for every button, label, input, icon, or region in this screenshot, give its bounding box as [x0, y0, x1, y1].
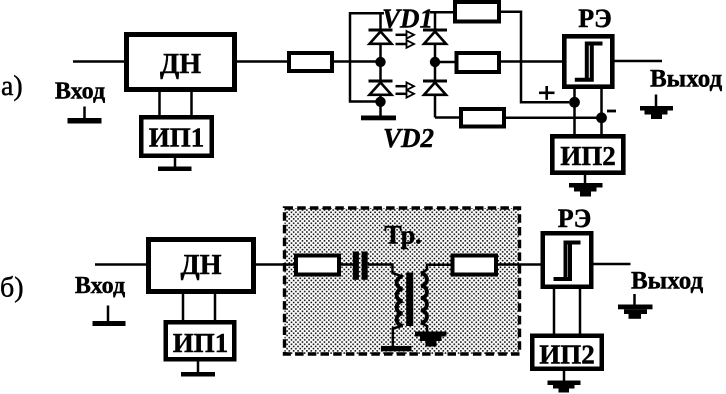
bottom resistor (a): [461, 109, 504, 127]
wire capacitor to transformer primary: [368, 265, 403, 277]
transformer primary winding: [397, 277, 403, 326]
optocoupler arrow 1: [396, 31, 415, 39]
ground under Vhod (b): [93, 306, 126, 327]
diode VD1 left: [369, 30, 393, 44]
dashed box: [285, 208, 520, 354]
wire right diode column: [434, 12, 437, 117]
diode right top: [423, 30, 447, 44]
wire DN to IP1 right (a): [190, 92, 193, 115]
svg-text:Выход: Выход: [631, 268, 704, 295]
ground under IP1 (a): [158, 158, 192, 171]
svg-text:ИП1: ИП1: [173, 328, 229, 358]
wire top resistor to plus node: [499, 12, 569, 103]
node dot left bottom: [375, 97, 385, 107]
block IP2 (a): [552, 136, 623, 172]
svg-text:ИП2: ИП2: [560, 141, 616, 171]
wire R1 to capacitor (b): [341, 263, 353, 266]
ground under Vhod (a): [68, 107, 102, 124]
wire DN to R1 (b): [256, 263, 296, 266]
wire right column to bottom resistor: [435, 116, 461, 119]
wire RE right pin to IP2 (b): [579, 289, 582, 336]
wire DN to IP1 left (b): [182, 294, 185, 322]
wire input (b): [95, 263, 148, 266]
transformer core: [406, 273, 413, 327]
wire primary to ground: [393, 326, 403, 347]
svg-text:ДН: ДН: [160, 49, 201, 80]
middle resistor (a): [457, 53, 500, 72]
earth of secondary winding: [415, 332, 447, 347]
wire top loop left segment: [350, 13, 384, 101]
optocoupler arrow 3: [396, 82, 415, 90]
svg-text:РЭ: РЭ: [558, 204, 592, 233]
wire secondary bottom to earth: [421, 323, 427, 332]
node dot minus (a): [596, 112, 607, 123]
wire bottom resistor to minus node: [506, 117, 602, 120]
svg-text:VD2: VD2: [383, 123, 434, 153]
ground under left diode column: [361, 116, 396, 121]
wire RE output (b): [594, 263, 631, 266]
ground under IP2 (a): [569, 175, 603, 197]
svg-text:а): а): [1, 71, 23, 102]
minus sign (a): [607, 110, 616, 113]
wire R1 to diode node (a): [334, 60, 381, 63]
wire RE left pin to IP2 (b): [553, 289, 556, 336]
block DN (b): [149, 240, 254, 292]
node dot plus (a): [569, 97, 580, 108]
wire R2 to RE (b): [498, 263, 542, 266]
svg-text:ИП2: ИП2: [539, 340, 595, 370]
ground under Vyhod (b): [618, 294, 653, 319]
plus sign (a): [539, 86, 555, 100]
wire middle resistor to RE: [501, 60, 564, 63]
wire node dot to middle resistor: [435, 61, 457, 64]
block DN (a): [127, 35, 235, 90]
transformer secondary winding: [421, 274, 427, 323]
ground under IP1 (b): [181, 362, 215, 377]
block RE (a): [564, 36, 612, 86]
node dot right middle: [430, 57, 440, 67]
wire secondary top to R2 (b): [421, 265, 453, 274]
wire RE output (a): [614, 60, 662, 63]
svg-text:Вход: Вход: [75, 273, 125, 299]
wire DN to R1 (a): [237, 60, 289, 63]
wire left diode column: [379, 13, 382, 116]
resistor R1 (a): [289, 53, 332, 71]
optocoupler arrow 4: [396, 90, 415, 98]
wire input (a): [73, 60, 126, 63]
hysteresis symbol (a): [575, 44, 603, 80]
ground under Vyhod (a): [640, 95, 673, 120]
svg-text:Вход: Вход: [55, 79, 105, 105]
svg-text:РЭ: РЭ: [578, 4, 612, 33]
diode right bottom: [423, 81, 447, 95]
block IP1 (a): [141, 117, 212, 156]
ground under IP2 (b): [548, 371, 581, 393]
optocoupler arrow 2: [396, 40, 415, 48]
block RE (b): [543, 233, 592, 287]
svg-text:ИП1: ИП1: [149, 123, 205, 153]
svg-text:ДН: ДН: [180, 250, 221, 281]
capacitor C1 plate left: [353, 252, 359, 280]
wire top right segment to top resistor: [430, 11, 455, 14]
diode VD2 left: [369, 81, 393, 95]
block IP2 (b): [532, 336, 602, 370]
wire RE right pin down (a): [600, 89, 603, 136]
wire RE left pin down (a): [573, 89, 576, 136]
capacitor C1 plate right: [362, 252, 368, 280]
wire DN to IP1 left (a): [158, 92, 161, 115]
hysteresis symbol (b): [554, 243, 581, 280]
node dot left middle: [375, 57, 385, 67]
block IP1 (b): [166, 322, 235, 359]
resistor R2 (b): [453, 256, 497, 275]
svg-text:б): б): [0, 273, 24, 304]
top resistor (a): [455, 2, 499, 22]
wire DN to IP1 right (b): [214, 294, 217, 322]
resistor R1 (b): [296, 256, 339, 275]
ground of primary winding: [381, 346, 412, 351]
svg-text:Выход: Выход: [650, 66, 723, 93]
svg-text:Тр.: Тр.: [384, 221, 421, 250]
